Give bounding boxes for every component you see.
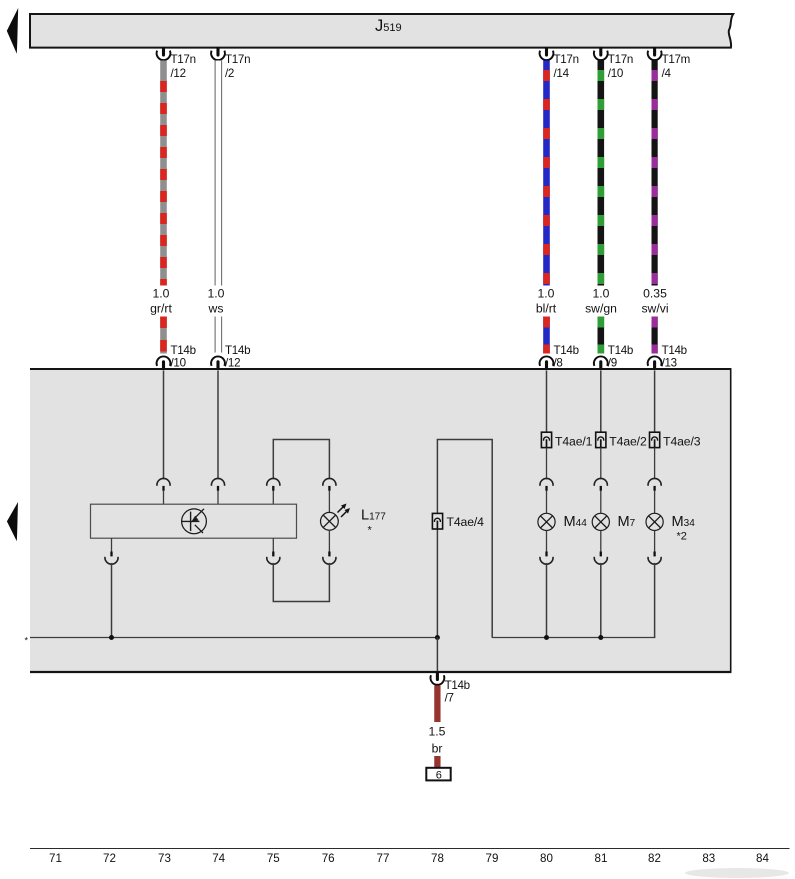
wire br lower segment (434, 756, 440, 768)
svg-text:/12: /12 (171, 67, 186, 80)
continuation arrow top-left (7, 8, 18, 54)
svg-text:77: 77 (377, 852, 390, 865)
svg-text:/7: /7 (445, 692, 454, 705)
wire from T14b/9 to T4ae/2 (600, 370, 602, 432)
internal connector below lamp (323, 530, 336, 564)
svg-text:T17n: T17n (608, 53, 633, 66)
ground bus right segment (492, 637, 655, 639)
svg-text:T14b: T14b (554, 344, 579, 357)
component box (control unit internals) (30, 368, 731, 672)
svg-text:ws: ws (208, 302, 224, 316)
motor M7 (592, 513, 609, 530)
connector T14b/9 (594, 344, 633, 370)
svg-text:T17n: T17n (171, 53, 196, 66)
svg-text:T17n: T17n (225, 53, 250, 66)
svg-text:T4ae/4: T4ae/4 (447, 515, 485, 529)
internal connector below rectangle left (105, 538, 118, 564)
junction node at T4ae/4 leg (435, 635, 440, 640)
svg-text:T4ae/3: T4ae/3 (663, 434, 701, 448)
connector T17n/12 (157, 49, 196, 81)
in-line connector T4ae/2 (596, 432, 647, 448)
wire label 1.0 gr/rt (150, 287, 172, 316)
junction node at switch leg (109, 635, 114, 640)
svg-text:72: 72 (103, 852, 116, 865)
wire T4ae/4 leg to box edge (436, 638, 438, 672)
svg-text:1.5: 1.5 (429, 725, 446, 739)
wire T4ae/2 to connector (600, 448, 602, 480)
connector T14b/10 (157, 344, 196, 370)
svg-text:1.0: 1.0 (208, 287, 225, 301)
svg-text:78: 78 (431, 852, 444, 865)
internal connector at lamp top (323, 478, 336, 512)
svg-text:/14: /14 (554, 67, 570, 80)
svg-text:/10: /10 (608, 67, 623, 80)
connector T17n/10 (594, 49, 633, 81)
internal connector above M7 (594, 478, 607, 513)
wire M7 to ground bus (600, 563, 602, 638)
connector T17m/4 (648, 49, 690, 81)
motor M44 (538, 513, 555, 530)
track ruler line (30, 848, 790, 850)
wire M44 to ground bus (546, 563, 548, 638)
svg-text:T14b: T14b (445, 679, 470, 692)
svg-text:81: 81 (595, 852, 608, 865)
svg-text:T14b: T14b (225, 344, 250, 357)
svg-text:T17n: T17n (554, 53, 579, 66)
wire M34 to ground bus (654, 563, 656, 638)
svg-text:T14b: T14b (662, 344, 687, 357)
svg-text:T4ae/2: T4ae/2 (609, 434, 647, 448)
wire bridge loop to lamp (273, 440, 329, 480)
wire sw/gn lower segment (597, 317, 604, 354)
label L177 (361, 508, 386, 537)
wire from T14b/8 to T4ae/1 (546, 370, 548, 432)
svg-text:br: br (432, 742, 443, 756)
connector T14b/8 (540, 344, 579, 370)
connector T17n/2 (211, 49, 250, 81)
wire label 0.35 sw/vi (641, 287, 668, 316)
internal connector below rectangle right (267, 538, 280, 564)
in-line connector T4ae/3 (650, 432, 701, 448)
svg-text:gr/rt: gr/rt (150, 302, 172, 316)
wire label 1.0 bl/rt (536, 287, 557, 316)
footnote mark at bus start (25, 636, 29, 646)
svg-text:/13: /13 (662, 357, 677, 370)
svg-text:73: 73 (158, 852, 171, 865)
wire from T14b/13 to T4ae/3 (654, 370, 656, 432)
internal connector above M44 (540, 478, 553, 513)
svg-text:*2: *2 (677, 531, 687, 543)
internal connector pin at rectangle pin1 (157, 478, 170, 504)
wire label 1.5 br (429, 725, 446, 756)
wire sw/vi upper segment (651, 61, 657, 286)
wire label 1.0 sw/gn (585, 287, 617, 316)
svg-text:bl/rt: bl/rt (536, 302, 557, 316)
wire ws upper segment (215, 61, 222, 286)
svg-text:/9: /9 (608, 357, 617, 370)
wire U-path through T4ae/4 (437, 440, 492, 638)
svg-text:*: * (25, 636, 29, 646)
wire from T14b/10 to internal connector (163, 370, 165, 479)
wire ws lower segment (215, 317, 222, 353)
connector T14b/13 (648, 344, 687, 370)
svg-text:T4ae/1: T4ae/1 (555, 434, 593, 448)
wire bl/rt upper segment (543, 61, 550, 286)
lamp L177 (321, 504, 351, 531)
ground bus left segment (30, 637, 437, 639)
label M34 (672, 514, 696, 543)
svg-text:sw/gn: sw/gn (585, 302, 617, 316)
svg-text:1.0: 1.0 (593, 287, 610, 301)
svg-text:T17m: T17m (662, 53, 690, 66)
label M7 (618, 514, 636, 530)
wire label 1.0 ws (208, 287, 225, 316)
svg-text:82: 82 (648, 852, 661, 865)
track numbers 71-84 (49, 852, 769, 865)
svg-text:T14b: T14b (608, 344, 633, 357)
svg-text:/10: /10 (171, 357, 186, 370)
svg-text:83: 83 (702, 852, 715, 865)
junction node at M7 leg (598, 635, 603, 640)
svg-text:74: 74 (212, 852, 225, 865)
wire T4ae/3 to connector (654, 448, 656, 480)
wire br upper segment (434, 686, 440, 723)
bus bar J519 (30, 14, 733, 48)
internal connector pin at rectangle pin2 (211, 478, 224, 504)
wire from switch to ground bus (111, 563, 113, 638)
svg-text:/4: /4 (662, 67, 672, 80)
svg-text:71: 71 (49, 852, 62, 865)
in-line connector T4ae/1 (541, 432, 592, 448)
internal connector below M34 (648, 531, 661, 565)
svg-text:1.0: 1.0 (153, 287, 170, 301)
svg-text:79: 79 (486, 852, 499, 865)
svg-text:/2: /2 (225, 67, 234, 80)
internal connector below M7 (594, 531, 607, 565)
svg-text:*: * (368, 525, 373, 537)
label M44 (564, 514, 588, 530)
internal connector pin at rectangle pin3 (267, 478, 280, 504)
in-line connector T4ae/4 (432, 513, 484, 529)
junction node at M44 leg (544, 635, 549, 640)
wire gr/rt upper segment (160, 61, 167, 286)
wire lamp return loop (273, 563, 329, 602)
internal connector above M34 (648, 478, 661, 513)
svg-text:84: 84 (756, 852, 769, 865)
connector T17n/14 (540, 49, 579, 81)
connector T14b/12 (211, 344, 250, 370)
wire from T14b/12 to internal connector (217, 370, 219, 479)
wire bl/rt lower segment (543, 317, 550, 354)
svg-text:76: 76 (322, 852, 335, 865)
faint watermark smudge (685, 868, 789, 878)
internal connector below M44 (540, 531, 553, 565)
svg-text:75: 75 (267, 852, 280, 865)
svg-text:sw/vi: sw/vi (641, 302, 668, 316)
wire sw/gn upper segment (597, 61, 604, 286)
svg-text:6: 6 (436, 769, 442, 781)
wire sw/vi lower segment (651, 317, 657, 354)
svg-text:T14b: T14b (171, 344, 196, 357)
rheostat symbol inside switch (182, 509, 207, 534)
switch unit rectangle (91, 504, 297, 538)
wire T4ae/1 to connector (546, 448, 548, 480)
svg-text:/12: /12 (225, 357, 240, 370)
svg-text:/8: /8 (554, 357, 563, 370)
continuation arrow box-left (7, 502, 18, 541)
svg-text:80: 80 (540, 852, 553, 865)
motor M34 (646, 513, 663, 530)
connector T14b/7 (431, 673, 470, 705)
ground point 6 (426, 768, 450, 782)
svg-text:1.0: 1.0 (538, 287, 555, 301)
svg-text:0.35: 0.35 (643, 287, 667, 301)
wire gr/rt lower segment (160, 317, 167, 354)
